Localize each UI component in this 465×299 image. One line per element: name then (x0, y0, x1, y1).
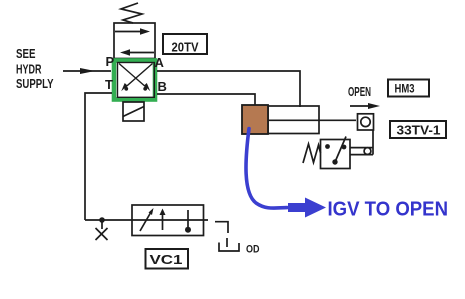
switch contacts (325, 144, 330, 149)
switch lever (335, 137, 346, 163)
rod end cam box (358, 114, 374, 130)
arrow left inside pilot valve (129, 52, 154, 54)
wire: bottom run to VC1 (85, 219, 208, 221)
svg-text:P: P (106, 54, 115, 69)
transfer valve green highlight box (114, 61, 155, 100)
pilot valve 20TV body (114, 23, 155, 59)
bracket elbow to OD (215, 222, 228, 233)
OPEN direction arrow (350, 105, 371, 107)
cam roller circle (361, 117, 370, 126)
arrow right inside pilot valve (115, 31, 141, 33)
svg-text:HYDR: HYDR (16, 62, 42, 77)
transfer valve crossed-flow arrows (119, 64, 147, 89)
junction dot (99, 217, 105, 223)
OD socket (219, 243, 239, 252)
33TV-1 label box (390, 121, 446, 138)
limit switch 33TV-1 body (321, 140, 351, 169)
svg-text:SEE: SEE (16, 46, 36, 61)
svg-text:VC1: VC1 (150, 252, 183, 267)
svg-text:SUPPLY: SUPPLY (16, 76, 54, 91)
HM3 label box (388, 80, 429, 97)
switch roller (364, 148, 371, 155)
svg-text:20TV: 20TV (172, 40, 199, 55)
VC1 stem and dot (187, 210, 189, 228)
limit switch spring (303, 144, 321, 163)
blue annotation curve (246, 129, 287, 209)
wire: port T to left drop (85, 93, 112, 220)
VC1 label box (146, 249, 189, 269)
svg-text:HM3: HM3 (395, 82, 415, 96)
transfer valve body outline (118, 63, 155, 98)
20TV label box (163, 34, 207, 54)
SEE HYDR SUPPLY text (16, 46, 54, 91)
cylinder body (268, 106, 319, 134)
svg-text:OD: OD (246, 244, 260, 256)
VC1 slash arrow (140, 212, 151, 231)
piston rod (268, 119, 356, 121)
wire: port A to cylinder top (157, 71, 300, 107)
svg-text:T: T (105, 77, 113, 92)
plugged port X (101, 220, 103, 229)
VC1 up arrow (162, 214, 164, 230)
solenoid box below valve (123, 102, 144, 121)
OD pin (226, 238, 228, 247)
link from cam box down to switch roller (372, 130, 374, 155)
svg-text:33TV-1: 33TV-1 (397, 123, 441, 138)
supply arrow line (63, 70, 111, 72)
svg-text:OPEN: OPEN (348, 84, 371, 99)
spring of pilot valve (121, 3, 142, 23)
VC1 servo valve body (132, 205, 204, 236)
switch roller fork (350, 147, 373, 149)
svg-text:B: B (158, 79, 167, 94)
svg-text:IGV TO OPEN: IGV TO OPEN (328, 199, 449, 221)
piston (brown) (242, 105, 268, 134)
svg-text:A: A (155, 55, 165, 70)
wire: port B to piston top (157, 94, 255, 105)
blue block arrow (288, 198, 326, 218)
